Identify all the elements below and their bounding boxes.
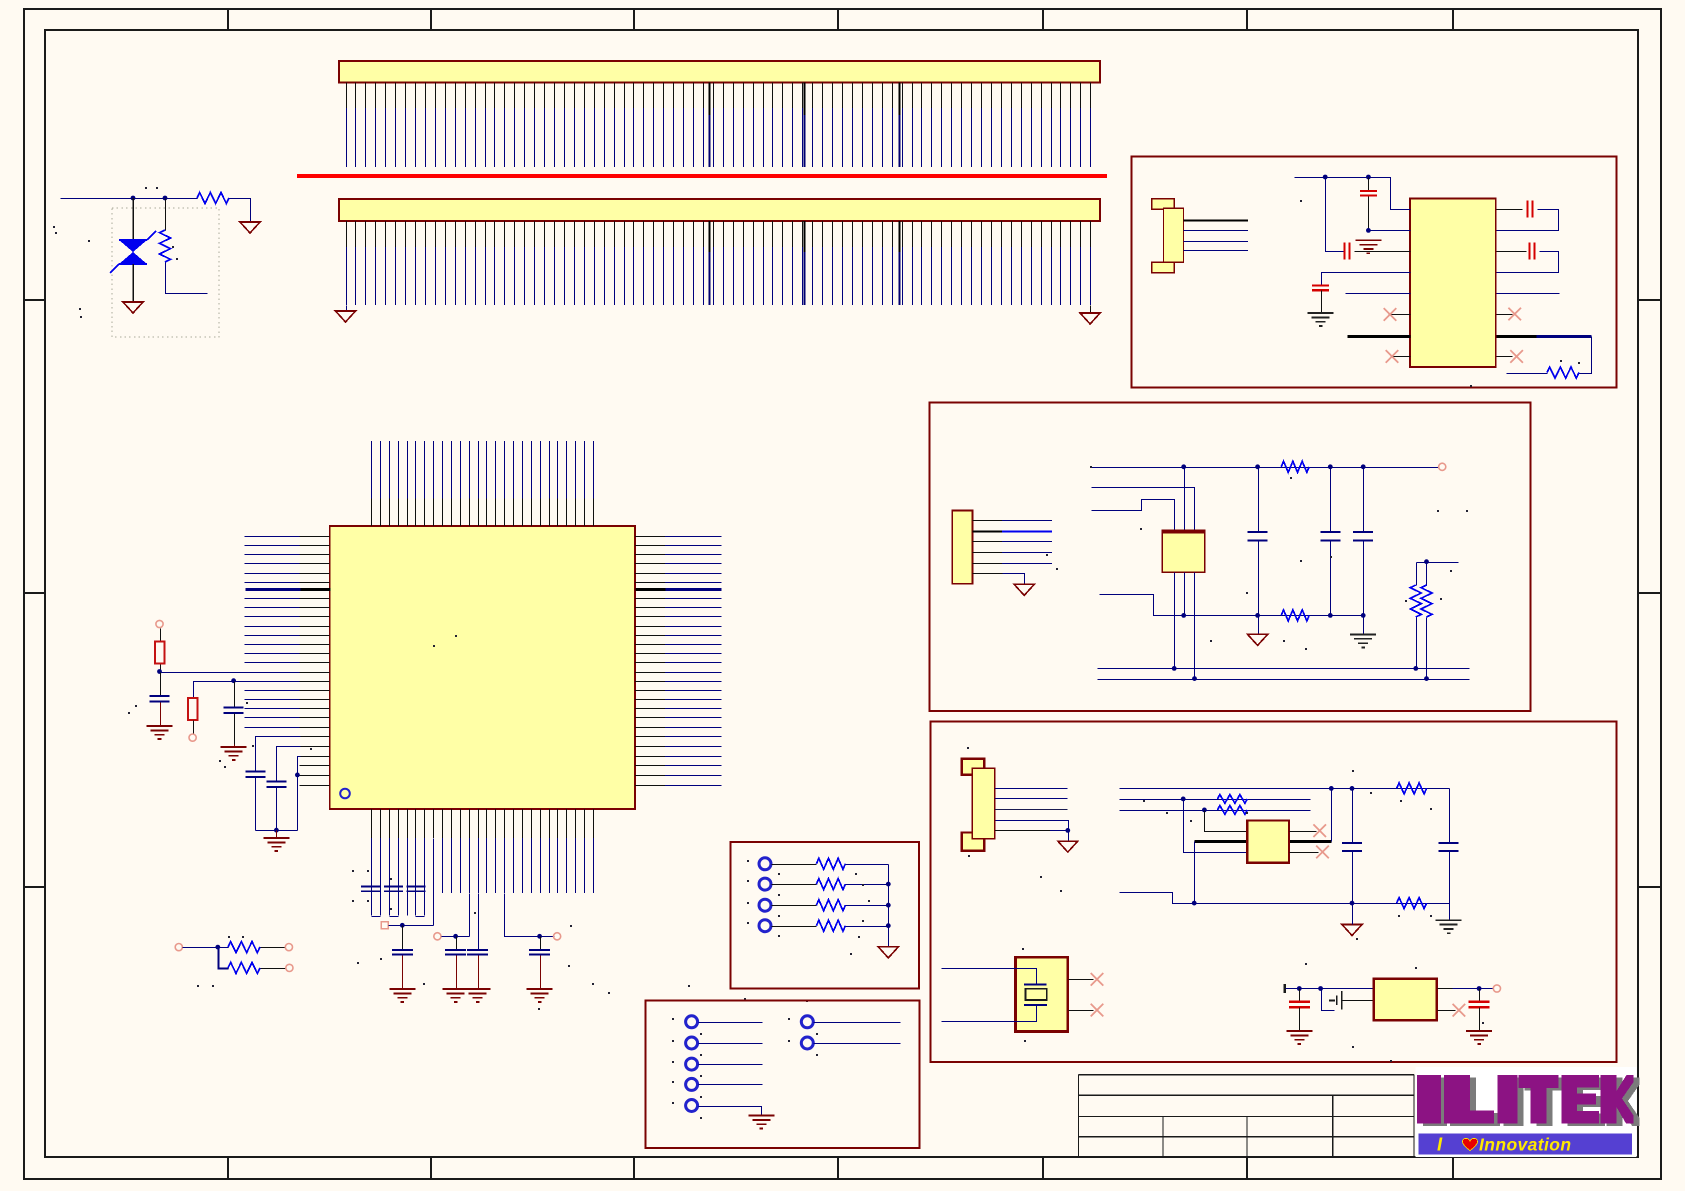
resistor R2 (160, 199, 208, 294)
junction (1297, 986, 1302, 991)
resistor R19 (772, 920, 889, 931)
connector J3 pins (973, 521, 1053, 564)
port (1439, 463, 1446, 470)
junction (1181, 613, 1186, 618)
wire (995, 830, 1068, 832)
IC U2 (1410, 199, 1496, 367)
junction (1323, 175, 1328, 180)
port (286, 964, 293, 971)
no-connect (1386, 350, 1399, 363)
port (1493, 985, 1500, 992)
section box 1 (1132, 157, 1617, 388)
filter FB1 (1322, 989, 1375, 1011)
junction (886, 882, 891, 887)
pin TP3 (686, 1058, 698, 1070)
wire (256, 830, 298, 832)
connector J4 (962, 759, 995, 851)
resistor R18 (772, 900, 889, 911)
wire (bus) (888, 865, 890, 948)
ground (1080, 313, 1100, 324)
port (381, 922, 388, 929)
no-connect (1091, 1004, 1104, 1017)
connector CN2 (lower flex row) (339, 199, 1100, 221)
capacitor C3 (150, 673, 170, 727)
wire (1417, 562, 1459, 564)
wire (1352, 904, 1354, 925)
crystal module Y1 (1016, 957, 1068, 1031)
wire (1092, 500, 1175, 531)
wire (699, 1022, 763, 1024)
connector J2 (1152, 199, 1184, 273)
pin TP7 (801, 1037, 813, 1049)
junction (163, 196, 168, 201)
wire (1389, 314, 1411, 316)
junction (537, 934, 542, 939)
resistor R3 (155, 629, 165, 673)
pin TP6 (801, 1016, 813, 1028)
junction (1424, 676, 1429, 681)
capacitor C1 (245, 771, 265, 830)
capacitor C8 (445, 937, 466, 990)
wire (505, 894, 541, 937)
wire (1290, 831, 1317, 833)
ground (1350, 634, 1376, 647)
wire (bus) (1348, 335, 1411, 338)
capacitor C14 (series) (1497, 201, 1559, 231)
junction (231, 678, 236, 683)
capacitor C21 (1289, 989, 1310, 1032)
wire (1295, 178, 1411, 210)
text dots (747, 860, 749, 862)
junction (886, 903, 891, 908)
wire (161, 672, 245, 674)
wire (1120, 893, 1450, 904)
wire (298, 757, 301, 831)
junction (1065, 828, 1070, 833)
junction (1318, 986, 1323, 991)
junction (400, 923, 405, 928)
IC U3 (1162, 530, 1205, 572)
wire (346, 306, 348, 312)
wire (1174, 573, 1176, 669)
no-connect (1091, 973, 1104, 986)
section box 2 (929, 403, 1530, 712)
text dots (1560, 360, 1562, 362)
resistor R14 (1217, 806, 1247, 815)
wire (276, 831, 278, 839)
wire (1258, 616, 1260, 635)
connector CN2 pins (347, 221, 1091, 305)
ground (527, 989, 553, 1002)
text dots (1046, 554, 1048, 556)
capacitor C6 (384, 887, 403, 892)
dotted selection box (112, 208, 219, 337)
wire (1497, 293, 1560, 295)
section box 5 (646, 1001, 920, 1148)
junction (1413, 666, 1418, 671)
capacitor C15 (series) (1497, 243, 1559, 273)
resistor R17 (772, 879, 889, 890)
connector CN1 (upper flex row) (339, 61, 1100, 83)
wire (1069, 1010, 1094, 1012)
text dots (228, 936, 230, 938)
pin P1 (759, 858, 771, 870)
capacitor C6b (407, 887, 426, 892)
crystal Y1 symbol (1024, 985, 1047, 1006)
ground (748, 1116, 774, 1129)
no-connect (1508, 308, 1521, 321)
resistor R1 (197, 193, 229, 204)
wire (298, 775, 301, 777)
power net line (red) (297, 174, 1107, 178)
section box 3 (931, 721, 1617, 1061)
U1 top pins (372, 441, 594, 526)
junction (1172, 666, 1177, 671)
capacitor C2 (266, 781, 286, 830)
capacitor C22 (1469, 989, 1490, 1032)
resistor R15 (1397, 898, 1427, 909)
wire (1184, 468, 1186, 531)
wire (433, 839, 435, 926)
junction (886, 923, 891, 928)
port (434, 933, 441, 940)
wire (194, 682, 235, 699)
resistor R7 (1507, 367, 1580, 378)
wire (942, 969, 1037, 986)
junction (1361, 613, 1366, 618)
text dots (352, 870, 354, 872)
no-connect (1453, 1004, 1466, 1017)
pin (189, 734, 196, 741)
pin TP1 (686, 1016, 698, 1028)
junction (1328, 613, 1333, 618)
junction (157, 669, 162, 674)
wire (442, 936, 470, 938)
ILITEK logo (1416, 1067, 1640, 1157)
text dots (135, 705, 137, 707)
terminal (1284, 984, 1286, 993)
U1 bottom pins (372, 809, 594, 915)
connector CN1 pins (347, 83, 1091, 168)
capacitor C10 (529, 937, 550, 990)
capacitor C16 (1248, 468, 1268, 616)
wire (1438, 988, 1494, 990)
wire (1290, 852, 1319, 854)
text dots (145, 187, 147, 189)
wire (1331, 789, 1333, 842)
ground (221, 747, 247, 760)
resistor R10 (1410, 563, 1421, 669)
wire (389, 925, 434, 927)
ground (123, 302, 143, 313)
wire (256, 737, 301, 772)
wire (277, 747, 301, 782)
ground (1342, 925, 1362, 936)
IC U4 (1247, 821, 1289, 863)
junction (1181, 797, 1186, 802)
wire (219, 948, 229, 969)
resistor R11 (1421, 563, 1432, 680)
junction (1192, 901, 1197, 906)
text dots (672, 1018, 674, 1020)
wire (1369, 230, 1411, 232)
wire (1090, 306, 1092, 314)
wire (1069, 979, 1094, 981)
pin P2 (759, 878, 771, 890)
wire (1346, 293, 1411, 295)
U1 right pins (635, 537, 721, 786)
ground (1058, 841, 1078, 852)
connector J2 pins (1184, 221, 1249, 251)
wire (1184, 800, 1248, 853)
resistor R4 (188, 698, 198, 734)
capacitor C20 (1439, 843, 1459, 921)
port (554, 933, 561, 940)
pin (156, 620, 163, 627)
wire (U links) (372, 916, 425, 918)
wire (814, 1043, 901, 1045)
wire (1100, 595, 1364, 616)
resistor R16 (772, 858, 889, 869)
junction (131, 196, 136, 201)
TVS diode D1 (110, 198, 156, 302)
junction (1328, 464, 1333, 469)
ground (1355, 240, 1381, 253)
ground (389, 989, 415, 1002)
junction (1477, 986, 1482, 991)
ground (147, 726, 173, 739)
wire (478, 894, 480, 951)
svg-text:Innovation: Innovation (1479, 1135, 1571, 1155)
junction (1350, 786, 1355, 791)
wire (bus row left) (246, 588, 331, 591)
ground (1248, 634, 1268, 645)
wire (1194, 842, 1196, 904)
pin P3 (759, 899, 771, 911)
capacitor C11 (1360, 178, 1377, 231)
wire (1497, 314, 1513, 316)
resistor R6 (228, 962, 287, 973)
capacitor C19 (1342, 789, 1362, 904)
wire (61, 198, 198, 200)
ground (443, 989, 469, 1002)
MCU U1 (330, 526, 635, 809)
ground (1286, 1031, 1312, 1044)
wire (814, 1022, 901, 1024)
pin TP2 (686, 1037, 698, 1049)
ground (1466, 1031, 1492, 1044)
no-connect (1510, 350, 1523, 363)
resistor R8 (1281, 461, 1309, 472)
junction (1255, 464, 1260, 469)
no-connect (1384, 308, 1397, 321)
wire (699, 1084, 763, 1086)
capacitor C5 (361, 887, 380, 892)
capacitor C13 (1312, 273, 1410, 314)
wire (rail A) (1120, 788, 1450, 790)
wire (bus) (1195, 840, 1332, 843)
wire (1184, 573, 1186, 616)
ground (1436, 920, 1462, 933)
junction (1366, 228, 1371, 233)
junction (1192, 676, 1197, 681)
resistor R5 (219, 942, 286, 953)
wire (699, 1064, 763, 1066)
junction (295, 773, 300, 778)
capacitor C9 (467, 950, 488, 990)
no-connect (1313, 824, 1326, 837)
wire (1449, 789, 1451, 844)
wire (bus GND2) (1098, 679, 1470, 681)
wire (235, 681, 245, 683)
no-connect (1316, 846, 1329, 859)
junction (1361, 464, 1366, 469)
wire (942, 1006, 1037, 1022)
wire (469, 894, 471, 937)
capacitor C12 (series) (1326, 178, 1411, 260)
U1 left pins (245, 537, 330, 786)
resistor R12 (1397, 783, 1427, 794)
wire (230, 199, 251, 223)
pin P4 (759, 920, 771, 932)
resistor R13 (1217, 795, 1247, 804)
svg-text:I: I (1437, 1134, 1443, 1155)
wire (1068, 831, 1070, 842)
wire (rail C) (1120, 810, 1311, 812)
resistor R9 (1281, 610, 1309, 621)
wire (rail B) (1120, 799, 1311, 801)
wire (699, 1107, 762, 1117)
wire (1092, 488, 1195, 531)
ground (336, 311, 356, 322)
wire (bus) (1497, 337, 1592, 374)
ground (465, 989, 491, 1002)
wire (699, 1043, 763, 1045)
connector J3 (952, 511, 972, 584)
wire (1497, 356, 1513, 358)
junction (1181, 464, 1186, 469)
junction (1329, 786, 1334, 791)
pin TP5 (686, 1100, 698, 1112)
ground (878, 947, 898, 958)
junction (1366, 175, 1371, 180)
connector J4 pins (995, 789, 1068, 810)
wire (1438, 1010, 1456, 1012)
pin TP4 (686, 1078, 698, 1090)
ground (240, 222, 260, 233)
ground (263, 838, 289, 851)
capacitor C18 (1353, 468, 1373, 635)
wire (183, 947, 219, 949)
wire (973, 574, 1025, 585)
wire (bus GND1) (1098, 668, 1470, 670)
wire (1205, 811, 1248, 832)
wire (1194, 573, 1196, 680)
title block table (1079, 1075, 1415, 1158)
port (285, 944, 292, 951)
wire (541, 936, 555, 938)
wire (VCC rail) (1092, 467, 1440, 469)
wire (bus row right) (636, 588, 722, 591)
ground (1014, 584, 1034, 595)
ground (1308, 313, 1334, 326)
wire (1286, 988, 1375, 990)
capacitor C4 (224, 682, 244, 748)
junction (1424, 559, 1429, 564)
junction (453, 934, 458, 939)
junction (1350, 901, 1355, 906)
wire (1393, 356, 1411, 358)
junction (215, 945, 220, 950)
junction (1202, 808, 1207, 813)
capacitor C17 (1320, 468, 1340, 616)
port (175, 944, 182, 951)
IC U5 (1374, 979, 1437, 1020)
text dots (967, 747, 969, 749)
junction (274, 828, 279, 833)
section box 4 (730, 842, 919, 989)
capacitor C7 (392, 926, 413, 990)
junction (1255, 613, 1260, 618)
wire (996, 821, 1069, 831)
